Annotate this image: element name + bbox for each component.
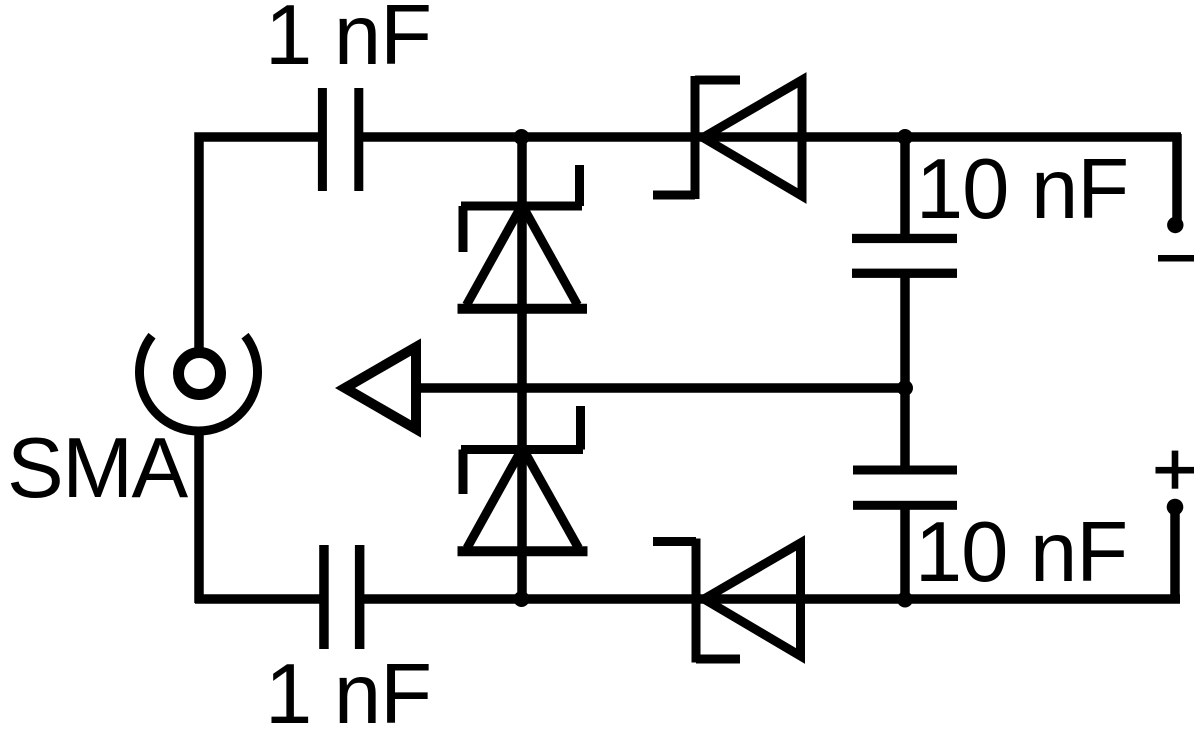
wire right bus vertical middle (C3 to C4) — [900, 272, 910, 473]
negative terminal dot — [1167, 217, 1183, 233]
capacitor C2 (1 nF, bottom) — [319, 545, 364, 649]
wire top horizontal left (node SMA to C1) — [199, 137, 319, 352]
wire right terminal vertical (positive terminal to bottom rail) — [1170, 507, 1180, 603]
junction node (top rail / right bus) — [897, 129, 913, 145]
wire bottom rail right (C2 to positive corner) — [364, 594, 1181, 604]
arrow marker (signal direction, open triangle) — [345, 347, 416, 429]
wire right terminal vertical (to negative terminal) — [1172, 134, 1182, 225]
schottky diode D3 (top right, horizontal, cathode left) — [653, 76, 802, 199]
label minus — [1158, 255, 1194, 262]
wire top horizontal right (C1 to node K1) — [363, 132, 1182, 142]
wire middle horizontal (arrow to right bus) — [414, 383, 905, 393]
SMA connector J1 — [140, 336, 258, 431]
wire left vertical lower (SMA to bottom rail) — [194, 429, 204, 603]
schottky diode D4 (bottom right, horizontal, cathode left) — [653, 539, 801, 663]
wire right bus vertical upper (top rail to C3) — [900, 133, 910, 242]
schottky diode D2 (lower center, vertical, cathode up) — [458, 406, 588, 551]
wire right bus vertical lower (C4 to bottom rail) — [900, 502, 910, 603]
capacitor C1 (1 nF, top) — [318, 88, 363, 191]
junction node (top rail / center string) — [514, 129, 530, 145]
wire center vertical (D1/D2 string) — [517, 133, 527, 603]
junction node (bottom rail / center string) — [514, 591, 530, 607]
schottky diode D1 (upper center, vertical, cathode up) — [458, 165, 588, 309]
capacitor C3 (10 nF, upper right) — [852, 234, 957, 278]
wire bottom rail left (to C2) — [195, 594, 320, 604]
capacitor C4 (10 nF, lower right) — [853, 466, 957, 510]
svg-text:10 nF: 10 nF — [915, 505, 1127, 600]
label plus — [1156, 451, 1195, 489]
positive terminal dot — [1167, 499, 1184, 516]
svg-text:SMA: SMA — [7, 421, 189, 516]
svg-text:1 nF: 1 nF — [265, 647, 431, 736]
junction node (middle wire / right bus) — [897, 380, 913, 396]
junction node (bottom rail / right bus) — [897, 592, 913, 608]
svg-text:1 nF: 1 nF — [265, 0, 431, 83]
svg-text:10 nF: 10 nF — [916, 142, 1128, 237]
